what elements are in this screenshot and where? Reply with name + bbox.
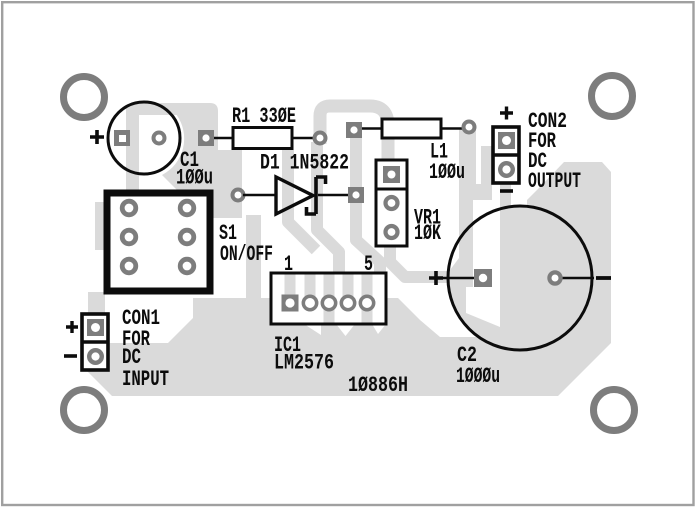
- trace CON2 minus riser: [500, 184, 511, 234]
- pad S1 pin4: [180, 230, 194, 244]
- svg-text:1Ø886H: 1Ø886H: [348, 373, 408, 398]
- label CON1 plus sign: [66, 321, 78, 333]
- mounting hole bottom-left: [64, 390, 105, 431]
- pad L1 left (square): [346, 122, 362, 138]
- pad L1 right (ring): [464, 122, 475, 133]
- label C1 plus sign: [90, 130, 104, 144]
- pad CON2 negative (ring): [500, 163, 513, 176]
- pad C2 negative (ring): [549, 272, 560, 283]
- trace R1 right pad up and over to VR1 top pad: [320, 106, 388, 178]
- trace VR1 bottom to pour: [390, 247, 447, 277]
- pad CON1 positive (square): [87, 319, 104, 336]
- trace strip B down to IC1: [317, 142, 339, 276]
- white notch under IC1 middle: [336, 324, 355, 336]
- wire S1 to CON1: [88, 292, 105, 316]
- wire C2 plus: [443, 277, 476, 280]
- pad S1 pin5: [122, 259, 136, 273]
- svg-text:5: 5: [364, 252, 373, 277]
- svg-text:1: 1: [284, 252, 293, 277]
- svg-text:R1 33ØE: R1 33ØE: [232, 104, 296, 129]
- svg-text:OUTPUT: OUTPUT: [528, 169, 581, 194]
- IC IC1 outline: [271, 273, 386, 324]
- wire node A: central strip from C1 blob down: [246, 215, 261, 305]
- pad R1 right (ring): [315, 133, 326, 144]
- copper sliver left of S1: [95, 202, 104, 250]
- pad S1 pin1: [122, 201, 136, 215]
- pad D1 cathode (square): [348, 187, 364, 203]
- trace strip A from under R1 down: [288, 150, 316, 250]
- pad IC1 pin4: [341, 296, 354, 309]
- copper blob around C1 / R1 left pad: [126, 103, 242, 218]
- IC IC1 body fill: [271, 273, 386, 324]
- capacitor C1 outline: [108, 102, 180, 174]
- white channel right of C2 plus pad: [466, 200, 500, 327]
- pour wedge behind CON2: [527, 162, 611, 215]
- pad IC1 pin2: [303, 296, 316, 309]
- diode D1 symbol: [243, 177, 350, 214]
- wire C1 plus pad to S1: [126, 138, 139, 192]
- svg-text:ON/OFF: ON/OFF: [220, 242, 273, 267]
- white notch under IC1 right: [372, 324, 386, 334]
- connector CON2 outline: [493, 127, 519, 183]
- pad IC1 pin5: [360, 296, 373, 309]
- svg-text:1ØØu: 1ØØu: [429, 160, 465, 185]
- inductor L1 body: [360, 119, 463, 138]
- switch S1 outline: [107, 193, 210, 291]
- pad VR1 pin2 (ring): [386, 197, 398, 209]
- svg-text:LM2576: LM2576: [274, 351, 334, 376]
- trace CON2 plus riser: [481, 146, 492, 186]
- white pocket in C2 top-left: [432, 208, 459, 270]
- white notch under IC1 left: [304, 324, 321, 335]
- pad C1 positive (square): [114, 130, 130, 146]
- trace flare at C2 plus: [449, 256, 459, 272]
- pad R1 left (square): [198, 130, 214, 146]
- label CON2 plus sign: [500, 107, 513, 120]
- pad IC1 pin1 (square): [282, 295, 299, 312]
- pour disk under C2: [448, 206, 592, 350]
- pour bottom region: [86, 298, 611, 396]
- mounting hole top-left: [64, 77, 105, 118]
- pad S1 pin3: [122, 230, 136, 244]
- label CON2 minus sign: [500, 189, 513, 193]
- wire IC1 interior pin strips: [285, 275, 373, 326]
- pad IC1 pin3: [322, 296, 335, 309]
- pad S1 pin6: [180, 259, 194, 273]
- connector CON1 outline: [82, 314, 108, 370]
- potentiometer VR1 outline: [376, 160, 407, 246]
- capacitor C2 outline: [448, 206, 592, 350]
- svg-text:INPUT: INPUT: [122, 367, 169, 392]
- pad C1 negative (ring): [154, 133, 165, 144]
- trace L1 right pad down to C2 plus pad: [459, 128, 476, 272]
- label CON1 minus sign: [64, 354, 77, 358]
- pad CON1 negative (ring): [89, 350, 102, 363]
- wire C2 minus: [562, 277, 594, 280]
- pad VR1 pin1 (square): [383, 166, 400, 183]
- svg-text:D1 1N5822: D1 1N5822: [260, 151, 349, 176]
- pad D1 anode (ring): [233, 190, 244, 201]
- svg-text:1ØØØu: 1ØØØu: [456, 364, 500, 389]
- resistor R1 body: [213, 128, 314, 149]
- mounting hole bottom-right: [594, 390, 635, 431]
- trace L1 left pad to D1 cathode pad and down: [356, 132, 380, 300]
- svg-text:1ØØu: 1ØØu: [176, 166, 213, 191]
- label C2 plus sign: [429, 271, 443, 285]
- pad S1 pin2: [180, 201, 194, 215]
- pad C2 positive (square): [474, 269, 492, 287]
- mounting hole top-right: [592, 76, 633, 117]
- pad VR1 pin3 (ring): [386, 226, 398, 238]
- pad CON2 positive (square): [498, 132, 515, 149]
- label C2 minus sign: [596, 276, 611, 280]
- pour right of C2: [520, 206, 611, 343]
- svg-text:1ØK: 1ØK: [414, 221, 442, 246]
